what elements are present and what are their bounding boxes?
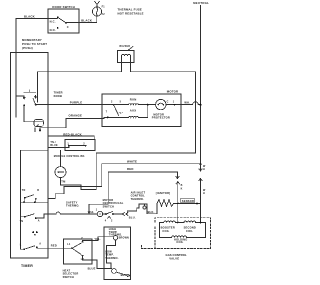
timer spare contact pair	[32, 231, 34, 233]
ignitor resistor R1	[157, 200, 174, 207]
wire bank A to cam contact	[24, 105, 43, 121]
svg-text:A: A	[38, 219, 40, 222]
wire ORANGE timer to motor pin 7	[48, 117, 129, 127]
wire board to timer motor	[60, 151, 62, 167]
svg-text:C: C	[167, 100, 169, 103]
label IGNITOR	[156, 191, 170, 195]
node N.O.	[57, 27, 59, 29]
svg-text:N.C.: N.C.	[50, 20, 56, 24]
motor protector P1	[156, 99, 166, 109]
svg-text:A: A	[39, 243, 41, 246]
wire TN/BLUE timer to board pin 1	[48, 147, 69, 148]
node motor pin 2	[113, 104, 115, 106]
pin labels F1 F2	[102, 5, 106, 16]
node motor pin 7	[107, 117, 109, 119]
timer motor TM	[55, 167, 66, 178]
valve coil box sides	[160, 223, 206, 238]
svg-text:BLUE: BLUE	[50, 144, 58, 147]
wire YEL to high temp thermostat	[83, 237, 114, 242]
wire bank D to red out	[37, 246, 48, 249]
run winding L1	[114, 103, 148, 106]
node board pin 1	[68, 145, 70, 147]
module control board U1	[65, 140, 95, 151]
second coil L4	[178, 221, 206, 222]
junction white to neutral	[200, 163, 202, 165]
label RED	[127, 167, 134, 171]
label BLACK (left wire)	[24, 15, 35, 19]
wire bus to bank C	[21, 216, 25, 218]
svg-text:COIL: COIL	[162, 229, 169, 233]
label AUX	[130, 109, 137, 113]
connector pair left (red to valve center)	[176, 176, 179, 178]
svg-text:RED: RED	[51, 243, 57, 247]
node bank C right	[35, 217, 37, 219]
node board pin 2	[85, 145, 87, 147]
label BROWN	[119, 237, 129, 240]
svg-text:BROWN: BROWN	[119, 237, 129, 240]
buzzer BZ1	[118, 51, 135, 63]
svg-text:WHITE: WHITE	[127, 160, 137, 164]
timer bank A right contact	[35, 95, 37, 98]
svg-text:[IGNITOR]: [IGNITOR]	[156, 191, 170, 195]
svg-text:RED: RED	[127, 167, 134, 171]
svg-text:NEUTRAL: NEUTRAL	[193, 1, 209, 5]
junction sensor node	[196, 203, 198, 205]
wire feed to timer bank A	[16, 95, 24, 97]
holding coil L5	[160, 236, 206, 237]
label TIMER KNOB	[54, 91, 63, 98]
svg-text:VALVE: VALVE	[169, 257, 179, 261]
junction WH to neutral	[200, 104, 202, 106]
wire ignitor to sensor to neutral branch	[174, 203, 201, 205]
svg-text:TM: TM	[61, 179, 65, 183]
junction bank B right	[34, 201, 36, 203]
air inlet thermostat disc TH2	[144, 204, 146, 206]
wire RED timer to ignitor connector	[89, 172, 178, 214]
svg-text:C: C	[81, 237, 83, 240]
svg-text:RUN: RUN	[130, 98, 137, 102]
svg-text:THERMO.: THERMO.	[66, 204, 80, 208]
pin labels 1 4 2 and label MOTOR CENTRIFUGAL SWITCH	[96, 198, 124, 223]
svg-text:H: H	[203, 168, 205, 171]
bank D blade	[24, 246, 34, 249]
low temp thermostat disc TH4	[112, 269, 117, 274]
label TM	[61, 179, 65, 183]
svg-text:SWITCH: SWITCH	[103, 204, 115, 208]
label RED-BLACK	[63, 132, 82, 136]
node cam contact	[39, 129, 41, 131]
node C	[82, 241, 84, 243]
connector pair right (neutral to sensor)	[199, 164, 202, 171]
pin labels 2 5 7 "1"	[106, 100, 123, 115]
svg-text:NOT RESETABLE: NOT RESETABLE	[118, 12, 144, 16]
svg-text:TIMER: TIMER	[21, 264, 33, 268]
node N.C.	[57, 17, 59, 19]
svg-text:F2: F2	[102, 13, 106, 16]
svg-text:PROTECTOR: PROTECTOR	[152, 116, 170, 120]
wire bus to bank D	[21, 248, 25, 250]
node bank A right	[35, 104, 37, 106]
svg-text:BLACK: BLACK	[81, 19, 92, 23]
svg-text:KNOB: KNOB	[54, 94, 63, 98]
svg-text:RED-BLACK: RED-BLACK	[63, 132, 82, 136]
node centrifugal switch pin 2	[112, 213, 114, 215]
svg-text:AUX: AUX	[130, 109, 137, 113]
label YEL.	[94, 237, 101, 241]
svg-text:YEL.: YEL.	[94, 237, 101, 241]
svg-text:THERMO.: THERMO.	[131, 197, 145, 201]
timer T1 box	[10, 53, 48, 259]
svg-text:"1": "1"	[119, 112, 123, 115]
svg-text:L1: L1	[67, 243, 71, 246]
wire RED timer to heat selector	[48, 247, 72, 249]
label WHITE	[127, 160, 137, 164]
connector pair BLU	[122, 213, 128, 216]
label BUZZER	[120, 46, 131, 48]
node bank D left	[23, 248, 25, 250]
timer bank A left contact	[23, 96, 25, 99]
label LOW TEMP. THERMO.	[105, 249, 119, 259]
motor start switch blade	[114, 105, 119, 116]
svg-text:SWITCH: SWITCH	[63, 275, 75, 279]
label RUN	[130, 98, 137, 102]
label BRN.	[121, 273, 128, 277]
wire BLUE to low temp thermostat	[83, 256, 112, 269]
wire RED-BLACK timer to module board	[48, 136, 94, 140]
timer internal bus	[21, 150, 48, 249]
svg-text:MODULE CONTROL BD.: MODULE CONTROL BD.	[54, 155, 86, 158]
node centrifugal switch pin 1	[105, 213, 107, 215]
node L1	[71, 247, 73, 249]
node bank B left	[24, 197, 26, 199]
label PURPLE	[70, 100, 83, 104]
pin labels TN A (bank C)	[20, 219, 40, 223]
wire BRN arrow to enclosure edge	[116, 272, 130, 276]
svg-text:DOOR SWITCH: DOOR SWITCH	[52, 5, 75, 9]
node bank C left	[24, 216, 26, 218]
wire PURPLE timer to motor pin 2	[36, 104, 114, 106]
svg-text:BLACK: BLACK	[24, 15, 35, 19]
node bank D right	[36, 246, 38, 248]
svg-text:BLUE: BLUE	[88, 266, 96, 270]
node C	[65, 22, 67, 24]
svg-text:N.O.: N.O.	[50, 28, 56, 32]
terminal arrow to line L1	[95, 1, 100, 7]
svg-text:SENSOR: SENSOR	[182, 199, 194, 203]
label RED (bottom)	[51, 243, 57, 247]
bank B stubs	[25, 198, 36, 202]
cam contact bar	[34, 128, 36, 131]
board internal link	[69, 145, 86, 147]
centrifugal switch blade	[106, 212, 112, 214]
wire timer to safety thermostat	[48, 212, 98, 214]
bank B blade	[25, 195, 34, 198]
label BLACK (right wire)	[81, 19, 92, 23]
svg-text:WH.: WH.	[184, 101, 190, 105]
svg-text:BLK.: BLK.	[148, 210, 155, 214]
wire brown to low temp thermostat	[107, 240, 116, 269]
junction windings to protector	[147, 104, 149, 106]
wire bank C to safety thermostat	[36, 214, 48, 218]
labels SAFETY THERMO. and WHI.	[66, 200, 95, 214]
svg-text:BLU.: BLU.	[129, 216, 136, 220]
motor M1 box	[102, 94, 181, 127]
svg-text:ORANGE: ORANGE	[69, 114, 83, 118]
wire L1 feed to door switch and down into timer	[16, 19, 57, 118]
node bank B right	[35, 198, 37, 200]
label MOTOR	[167, 90, 178, 94]
svg-text:BUZZER: BUZZER	[120, 46, 131, 48]
wire to centrifugal switch	[103, 213, 106, 215]
gas control valve dashed enclosure	[142, 218, 211, 249]
wire protector to neutral	[166, 104, 193, 106]
svg-text:F1: F1	[102, 5, 106, 8]
svg-text:B: B	[37, 189, 39, 192]
wire timer to buzzer left leg	[38, 72, 122, 102]
labels BOOSTER COIL SECOND COIL HOLDING COIL	[161, 226, 196, 244]
label TIMER	[21, 264, 33, 268]
junction booster-second tap	[177, 222, 179, 224]
junction bank B left	[23, 201, 25, 203]
svg-text:C: C	[67, 25, 69, 29]
svg-text:COIL: COIL	[176, 240, 183, 244]
label BLUE	[88, 266, 96, 270]
junction second coil to connector	[200, 222, 202, 224]
label ORANGE	[69, 114, 83, 118]
wire neutral bus	[200, 6, 202, 165]
thermal fuse TF1	[92, 7, 101, 16]
svg-text:MOTOR: MOTOR	[167, 90, 178, 94]
label DOOR SWITCH and pin labels N.C. N.O. C	[50, 5, 75, 32]
pin labels 1 2 and labels MODULE CONTROL BD. TN./BLUE	[50, 141, 85, 158]
svg-text:THERMO.: THERMO.	[105, 256, 119, 260]
pin labels C 1 and label MOTOR PROTECTOR	[152, 100, 175, 119]
svg-text:COIL: COIL	[186, 229, 193, 233]
node protector pin 1	[174, 104, 176, 106]
bank A blade	[33, 99, 36, 105]
svg-text:TN: TN	[22, 189, 26, 192]
bank C blade	[25, 214, 34, 217]
wire BLK through air inlet thermostat to ignitor	[126, 204, 157, 215]
wire hop over buzzer return	[193, 102, 201, 105]
pin labels L A (bank D)	[20, 243, 41, 247]
labels AIR INLET CONTROL THERMO. and BLK.	[131, 190, 155, 214]
booster coil L3	[160, 221, 178, 222]
timer cam symbol	[34, 119, 43, 126]
svg-text:H: H	[203, 192, 205, 195]
label GAS CONTROL VALVE	[166, 253, 187, 261]
high temp thermostat disc TH3	[113, 236, 117, 240]
label NEUTRAL	[193, 1, 209, 5]
label THERMAL FUSE NOT RESETABLE	[118, 8, 144, 16]
node bank A left	[23, 105, 25, 107]
wire centrifugal switch to connector	[113, 213, 122, 215]
wire door switch C to thermal fuse F2	[67, 16, 97, 23]
svg-text:WHI.: WHI.	[88, 210, 95, 214]
svg-text:K: K	[181, 187, 183, 190]
heat selector switch SW2	[63, 239, 92, 264]
safety thermostat disc TH1	[97, 211, 102, 216]
wire cam contact to orange	[40, 128, 48, 131]
sensor S1	[181, 198, 195, 203]
thermostat enclosure box	[104, 227, 131, 280]
label HIGH TEMP. THERMO.	[109, 227, 123, 236]
wire bank B line	[21, 201, 48, 203]
junction ignitor node	[177, 203, 179, 205]
wire timer motor to neutral-return line	[61, 153, 196, 189]
label WH.	[184, 101, 190, 105]
timer cam bar	[24, 90, 36, 93]
label BLU.	[129, 216, 136, 220]
svg-text:PURPLE: PURPLE	[70, 100, 83, 104]
label MOMENTARY PUSH TO START (PUSH)	[22, 38, 47, 50]
door switch blade C to N.C.	[59, 18, 67, 23]
aux winding L2	[119, 105, 156, 118]
svg-text:(PUSH): (PUSH)	[22, 46, 33, 50]
heat selector blades	[72, 243, 81, 254]
svg-text:TN: TN	[20, 220, 24, 223]
pin labels L1 C L2 and label HEAT SELECTOR SWITCH	[63, 237, 85, 279]
wire WHITE timer to neutral	[48, 164, 201, 199]
wire buzzer right leg to neutral-return vertical	[131, 72, 196, 153]
pin labels TN B (bank B)	[22, 189, 39, 192]
door switch SW1	[48, 9, 79, 33]
node L2	[82, 255, 84, 257]
